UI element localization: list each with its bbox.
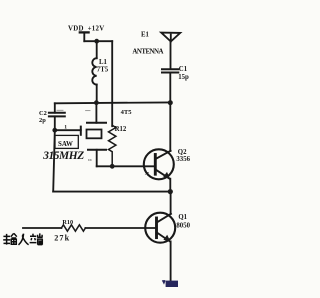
svg-text:2p: 2p (39, 117, 46, 124)
SAW left electrode bar (80, 127, 82, 135)
capacitor C1 (162, 68, 178, 70)
wire down to R12 (111, 41, 113, 126)
SAW box (55, 135, 78, 148)
transistor Q2 (144, 149, 174, 179)
wire bottom long (53, 191, 170, 193)
stray dash marks (57, 109, 63, 111)
svg-text:15p: 15p (178, 74, 189, 81)
crystal body (87, 130, 102, 139)
svg-text:Q1: Q1 (178, 214, 187, 221)
crystal bottom feed (96, 150, 98, 167)
crystal SAW resonator top feed (95, 103, 97, 123)
node L1 top (94, 39, 99, 44)
crystal bottom plate (88, 149, 106, 151)
base net wire (97, 165, 155, 167)
svg-text:VDD +12V: VDD +12V (68, 25, 104, 32)
inductor L1 (96, 41, 98, 58)
svg-text:R10: R10 (62, 219, 73, 226)
svg-text:-7: -7 (145, 172, 150, 177)
wire VDD horizontal (84, 40, 112, 42)
wire left feedback down (53, 130, 55, 191)
svg-text:3356: 3356 (176, 156, 190, 163)
crystal top plate (87, 122, 106, 124)
node R12 bottom (110, 164, 115, 169)
wire VDD down (83, 32, 85, 41)
ground VSS (162, 280, 178, 287)
Q1 collector wire (170, 192, 172, 214)
svg-text:ANTENNA: ANTENNA (132, 49, 163, 56)
svg-text:315MHZ: 315MHZ (42, 150, 84, 162)
chinese label input terminal (3, 233, 43, 245)
svg-text:7T5: 7T5 (97, 67, 109, 74)
wire to SAW left electrode (55, 129, 81, 131)
antenna E1 (161, 33, 180, 42)
svg-text:R12: R12 (115, 126, 127, 133)
svg-text:L1: L1 (99, 59, 108, 66)
input wire (23, 227, 61, 229)
capacitor C2 (54, 103, 56, 112)
Q2 emitter wire (169, 179, 171, 192)
svg-text:Q2: Q2 (178, 149, 187, 156)
resistor R10 (61, 225, 85, 231)
svg-text:cc: cc (88, 157, 92, 162)
node L1 bottom (94, 100, 99, 105)
wire main top rail (55, 101, 171, 104)
svg-text:8050: 8050 (176, 222, 190, 229)
power terminal bar (80, 31, 89, 33)
char ru (19, 234, 29, 245)
node C2 bottom (52, 128, 57, 133)
Q2 collector rail (169, 103, 171, 151)
transistor Q1 (145, 213, 175, 243)
char shu (3, 234, 10, 245)
resistor R12 (108, 125, 115, 166)
svg-text:C1: C1 (179, 66, 188, 73)
Q1 emitter wire (170, 241, 172, 281)
char duan (30, 234, 37, 243)
svg-text:SAW: SAW (58, 141, 73, 148)
svg-text:27k: 27k (54, 234, 70, 243)
svg-text:E1: E1 (141, 32, 150, 39)
node emitter-collector junction (168, 189, 173, 194)
svg-text:4T5: 4T5 (121, 109, 133, 116)
node C1 bottom (168, 100, 173, 105)
svg-text:1: 1 (64, 124, 67, 130)
